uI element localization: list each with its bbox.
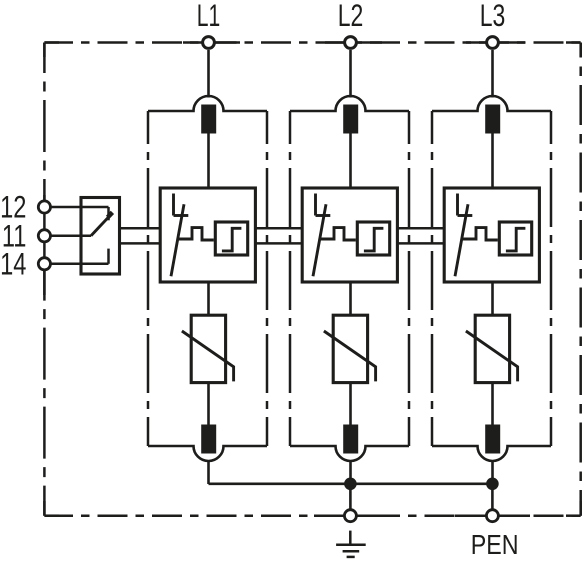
svg-text:L1: L1	[197, 0, 220, 33]
svg-text:14: 14	[0, 246, 26, 281]
svg-text:L3: L3	[480, 0, 506, 33]
svg-text:PEN: PEN	[471, 530, 519, 560]
svg-text:L2: L2	[338, 0, 364, 33]
